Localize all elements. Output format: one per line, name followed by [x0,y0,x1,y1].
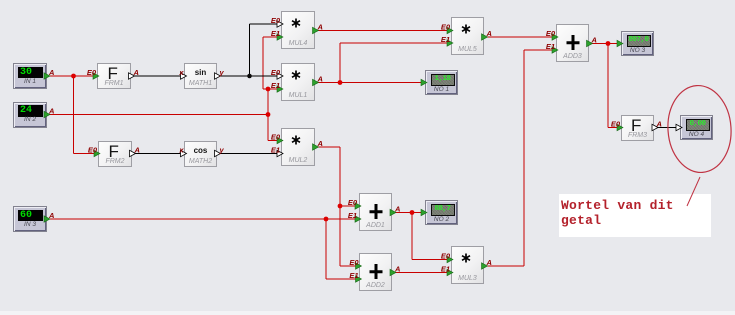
output display NO1 [425,70,458,95]
wire MATH2 to MUL2 [217,153,283,155]
svg-text:E0: E0 [271,68,281,77]
wire net ADD3 A [589,44,622,128]
input display IN3 value 60 [13,206,47,232]
junction IN3 branch [324,217,329,222]
svg-text:x: x [178,68,184,77]
svg-text:A: A [656,120,662,129]
junction IN2 T [266,112,271,117]
function block MATH2 cos [184,141,217,167]
svg-text:A: A [486,29,492,38]
wire net IN2 [47,37,283,141]
wire MUL5 A to ADD3 E0 [484,36,557,38]
output display NO4 [680,115,713,140]
wire ADD2 A to MUL3 E1 [392,272,452,274]
svg-text:E0: E0 [348,198,358,207]
wire FRM2 to MATH2 [132,153,186,155]
function block FRM2 [98,141,132,167]
svg-text:E0: E0 [441,252,451,261]
svg-text:E0: E0 [88,146,98,155]
svg-text:E1: E1 [271,146,280,155]
pin arrows white [129,21,683,157]
junction MUL1 E1 branch [266,87,271,92]
input display IN1 value 30 [13,63,47,89]
wire net IN3 [47,219,361,279]
adder ADD1 [359,193,392,231]
pin labels outputs [48,23,662,274]
multiplier MUL1 [281,63,315,101]
adder ADD2 [359,253,392,291]
output display NO2 [425,200,458,225]
annotation ellipse around NO4 [665,83,734,174]
svg-text:x: x [178,146,184,155]
wire net IN1 [47,76,98,154]
svg-text:y: y [219,68,225,77]
svg-text:E0: E0 [349,258,359,267]
svg-text:A: A [486,258,492,267]
annotation leader line [687,177,700,206]
junction MATH1 branch [247,74,252,79]
svg-text:E1: E1 [546,42,555,51]
wire MUL4 A to MUL5 E0 [315,30,452,32]
svg-text:A: A [134,146,140,155]
multiplier MUL3 [451,246,484,284]
svg-text:E0: E0 [87,68,97,77]
wire net MUL3 A [484,50,557,266]
svg-text:E0: E0 [611,120,621,129]
multiplier MUL4 [281,11,315,49]
svg-text:A: A [317,23,323,32]
pin labels inputs [87,16,621,280]
svg-text:A: A [317,75,323,84]
svg-text:E0: E0 [546,29,556,38]
svg-text:E1: E1 [271,29,280,38]
pin arrows green [44,27,623,282]
bottom strip [0,311,735,315]
svg-text:y: y [219,146,225,155]
svg-text:A: A [591,36,597,45]
function block FRM3 [621,115,654,141]
wire net MUL2 A [315,147,361,266]
input display IN2 value 24 [13,102,47,128]
junction ADD3 A [606,41,611,46]
svg-text:E0: E0 [441,23,451,32]
svg-text:E1: E1 [441,35,450,44]
wire net MATH1 output [217,24,283,76]
wire FRM1 to MATH1 [131,75,186,77]
function block FRM1 [97,63,131,89]
svg-text:E1: E1 [348,211,357,220]
svg-text:A: A [394,205,400,214]
svg-text:A: A [48,107,54,116]
adder ADD3 [556,24,589,62]
svg-text:E0: E0 [271,133,281,142]
junction IN1 branch [71,74,76,79]
svg-text:A: A [394,265,400,274]
wire FRM3 to NO4 [654,127,681,129]
multiplier MUL5 [451,17,484,55]
svg-text:E0: E0 [271,16,281,25]
multiplier MUL2 [281,128,315,166]
junction ADD1 E0 [338,204,343,209]
junction ADD1 A [410,210,415,215]
svg-text:A: A [133,68,139,77]
wire net MUL1 A [315,43,452,83]
svg-text:A: A [48,68,54,77]
junction MUL1 A [338,80,343,85]
output display NO3 [621,31,654,56]
svg-text:A: A [48,211,54,220]
annotation text box "Wortel van dit getal" [559,194,711,237]
function block MATH1 sin [184,63,217,89]
svg-text:E1: E1 [441,265,450,274]
svg-text:E1: E1 [349,271,358,280]
svg-text:A: A [317,139,323,148]
wire net ADD1 A [392,213,452,260]
svg-text:E1: E1 [271,81,280,90]
